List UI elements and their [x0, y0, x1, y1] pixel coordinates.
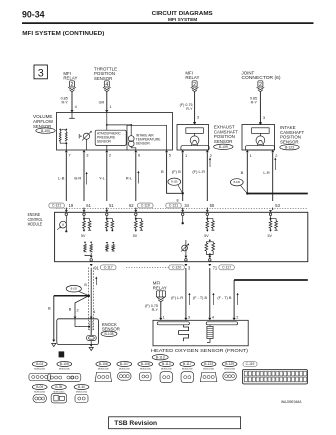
HO2S heater element [179, 325, 189, 341]
knock sensor shielded wire [90, 268, 92, 335]
direction arrow HO2S pin4 [212, 294, 214, 305]
svg-text:B-107: B-107 [120, 362, 129, 366]
engine control module box [55, 212, 308, 261]
svg-text:MU8012345: MU8012345 [203, 369, 215, 371]
connector B-129 [222, 361, 237, 366]
svg-text:B-R: B-R [74, 176, 81, 181]
svg-text:61: 61 [86, 203, 91, 208]
svg-text:3: 3 [263, 115, 265, 120]
connector B-35 [52, 384, 67, 389]
svg-text:50: 50 [210, 203, 215, 208]
svg-text:B-105: B-105 [171, 181, 178, 184]
connector B-113 [159, 361, 174, 366]
svg-text:MU8012345: MU8012345 [34, 392, 46, 394]
connector symbol MFI relay 2 [192, 81, 197, 87]
direction arrow knock wire [95, 278, 97, 285]
svg-text:5V: 5V [81, 234, 86, 238]
svg-text:C-121: C-121 [169, 204, 178, 208]
svg-text:MU8012345: MU8012345 [59, 369, 71, 371]
svg-text:B-123: B-123 [285, 145, 294, 149]
karman vortex sensor symbol [83, 133, 89, 139]
svg-text:(F) L-R: (F) L-R [171, 296, 183, 300]
intake air temperature sensor sub-box [127, 125, 167, 150]
ECM bottom dashed line [126, 266, 176, 268]
knock sensor box [57, 319, 99, 345]
svg-text:3: 3 [38, 67, 44, 79]
svg-text:MU8012345: MU8012345 [119, 369, 131, 371]
svg-text:R-Y: R-Y [152, 308, 159, 312]
knock sensor case ground [90, 344, 93, 346]
ECM pin 34 termination [181, 210, 184, 212]
svg-text:1: 1 [163, 314, 165, 319]
svg-text:B-35: B-35 [55, 385, 62, 389]
svg-text:2: 2 [210, 153, 212, 158]
label masks [45, 201, 191, 208]
shield drain junction [87, 295, 90, 298]
svg-text:71: 71 [213, 265, 218, 270]
svg-text:SENSOR: SENSOR [94, 76, 112, 81]
knock sensor pin 2 wire [75, 296, 89, 317]
direction arrow HO2S pin2 [237, 294, 239, 305]
svg-text:MU8012345: MU8012345 [76, 392, 88, 394]
svg-text:TSB Revision: TSB Revision [114, 420, 157, 427]
shield drain wire to ground [54, 295, 89, 297]
svg-text:2: 2 [77, 308, 79, 313]
svg-text:RELAY: RELAY [63, 76, 77, 81]
svg-text:V: V [62, 223, 65, 227]
svg-text:C-119: C-119 [141, 204, 150, 208]
wire right edge to HO2S pin 2 (thick) [234, 279, 308, 281]
connector ref oval B-108 [101, 331, 117, 336]
svg-text:SENSOR: SENSOR [102, 326, 120, 331]
knock pin 1 arrow + label [90, 317, 93, 319]
svg-text:CONNECTOR (6): CONNECTOR (6) [242, 75, 282, 80]
ECM connector label row dashed line [56, 207, 308, 209]
connector symbol MFI relay pin 2 [70, 81, 75, 87]
svg-text:R-Y: R-Y [61, 101, 68, 105]
svg-text:L-R: L-R [263, 170, 270, 175]
wire TPS into pressure sensor [106, 113, 108, 131]
direction arrow wire 62 [137, 172, 139, 184]
svg-text:MU8012345: MU8012345 [161, 369, 173, 371]
atmospheric pressure sensor box [95, 130, 126, 145]
connector B-106 [96, 361, 111, 366]
wire VAF pin 3 to ECM 61 [83, 153, 85, 211]
svg-text:2: 2 [71, 82, 74, 88]
svg-text:R-Y: R-Y [251, 101, 258, 105]
internal power bar [71, 113, 73, 119]
intake camshaft position sensor box [242, 125, 275, 151]
svg-text:3: 3 [188, 265, 191, 270]
svg-text:4: 4 [105, 82, 108, 88]
ground number 4 black box [59, 351, 65, 357]
svg-text:SENSOR: SENSOR [136, 141, 151, 145]
direction arrow HO2S pin3 [188, 294, 190, 305]
exhaust camshaft position sensor box [177, 125, 209, 151]
svg-text:C-119: C-119 [246, 362, 255, 366]
svg-text:(F) L-R: (F) L-R [192, 169, 205, 174]
connector B-105 [57, 361, 72, 366]
ECM internal resistor pair mid [106, 242, 108, 244]
ECM input resistors pin 51 [105, 210, 108, 212]
svg-text:GR: GR [99, 101, 105, 105]
ECM pin 71 differential pair [206, 240, 209, 243]
connector B-03 [32, 361, 47, 366]
header rule [22, 22, 314, 24]
svg-text:(F) B: (F) B [172, 169, 181, 174]
svg-text:B-106: B-106 [99, 362, 108, 366]
ECM exit label C-120 3 [169, 265, 185, 270]
HO2S sensing element [209, 325, 211, 327]
svg-text:B-113: B-113 [162, 362, 171, 366]
svg-text:CIRCUIT DIAGRAMS: CIRCUIT DIAGRAMS [152, 11, 213, 17]
svg-text:C-120: C-120 [172, 266, 181, 270]
svg-text:B-117: B-117 [183, 362, 192, 366]
wire intake pin 2 to ECM 53 [272, 153, 274, 211]
ECM entry pin 19 voltage sensor [65, 210, 68, 212]
ECM input resistors pin 62 [134, 210, 137, 212]
svg-text:90-34: 90-34 [22, 9, 45, 20]
svg-text:3: 3 [197, 115, 199, 120]
svg-text:MU8012345: MU8012345 [182, 369, 194, 371]
svg-text:5V: 5V [204, 234, 209, 238]
svg-text:B: B [241, 170, 244, 175]
svg-text:6: 6 [138, 153, 140, 158]
svg-text:B-09: B-09 [36, 385, 43, 389]
svg-text:B-108: B-108 [104, 332, 113, 336]
svg-text:2: 2 [193, 82, 196, 88]
connector B-09 [32, 384, 47, 389]
flow meter coils [59, 132, 61, 141]
ECM exit 71 [208, 256, 211, 258]
ECM output driver symbol [182, 245, 188, 251]
connector ref oval B-113 [152, 355, 168, 360]
svg-text:B-105: B-105 [71, 288, 78, 291]
direction arrow wire 53 [274, 159, 276, 170]
svg-text:SENSOR: SENSOR [280, 139, 299, 144]
svg-text:MFI SYSTEM: MFI SYSTEM [168, 17, 197, 23]
svg-text:5: 5 [169, 153, 171, 158]
svg-text:B-113: B-113 [156, 355, 165, 359]
direction arrow wire 50 [209, 159, 211, 167]
svg-text:2: 2 [109, 153, 111, 158]
connector ref C-121 (second) [166, 203, 182, 208]
ECM exit 3 [184, 256, 187, 258]
svg-text:MU8012345: MU8012345 [224, 369, 236, 371]
wire VAF pin 2 to ECM 51 [106, 153, 108, 211]
wire MFI relay to HO2S pin 1 [160, 302, 162, 319]
wire throttle position sensor to volume airflow sensor pin 1 [106, 92, 108, 111]
svg-text:51: 51 [109, 203, 114, 208]
svg-text:(F - T) B: (F - T) B [193, 296, 208, 300]
svg-text:B-105: B-105 [234, 181, 241, 184]
svg-text:8: 8 [177, 199, 179, 203]
svg-text:2: 2 [259, 82, 262, 88]
wire MFI relay to exhaust camshaft position sensor [194, 92, 196, 123]
svg-text:Y-L: Y-L [99, 176, 106, 181]
svg-text:SENSOR: SENSOR [214, 139, 233, 144]
svg-text:B-40: B-40 [78, 385, 85, 389]
svg-text:62: 62 [129, 203, 134, 208]
svg-text:19: 19 [69, 203, 74, 208]
svg-text:1: 1 [109, 104, 111, 109]
ECM input resistors pin 50 [206, 210, 209, 212]
svg-text:B-100: B-100 [41, 129, 50, 133]
HO2S tray 2 [206, 322, 237, 325]
svg-text:MU8012345: MU8012345 [98, 369, 110, 371]
connector C-119 multi-pin [243, 362, 257, 367]
svg-text:2: 2 [275, 153, 277, 158]
connector ref oval B-100 [36, 128, 55, 133]
svg-text:34: 34 [184, 203, 189, 208]
ECM input resistors pin 53 [269, 210, 272, 212]
wire joint connector to intake camshaft position sensor [259, 92, 261, 123]
connector B-123 [201, 361, 216, 366]
svg-text:B: B [161, 169, 164, 174]
svg-text:53: 53 [275, 203, 280, 208]
direction arrow wire 61 [86, 173, 88, 185]
connector B-40 [74, 384, 89, 389]
wire ECM 71 to HO2S pin 4 [209, 268, 211, 318]
svg-text:5V: 5V [133, 234, 138, 238]
svg-text:MU8012345: MU8012345 [140, 369, 152, 371]
svg-text:1: 1 [250, 153, 252, 158]
ECM knock interface resistors [84, 242, 86, 244]
wire intake pin 1 to right edge (thick) [246, 153, 248, 194]
wire exhaust pin 1 to ECM 34 [182, 153, 184, 211]
diagram index box 3 [34, 65, 47, 79]
wire VAF pin 5 joins exhaust pin 1 wire [167, 153, 183, 194]
svg-text:RELAY: RELAY [185, 75, 199, 80]
connector ref oval B-109 [214, 144, 233, 149]
svg-text:B: B [48, 306, 51, 311]
svg-text:4: 4 [75, 104, 78, 109]
ECM input resistors pin 61 [83, 210, 86, 212]
connector ref C-119 [138, 203, 154, 208]
svg-text:B: B [84, 283, 87, 287]
svg-text:7: 7 [69, 153, 71, 158]
svg-text:R-Y: R-Y [186, 107, 193, 111]
svg-text:B-105: B-105 [60, 362, 69, 366]
branch to intake air temperature sensor [107, 124, 131, 126]
junction connector oval callout right [230, 179, 243, 186]
svg-text:C-117: C-117 [104, 266, 113, 270]
svg-text:3: 3 [86, 153, 88, 158]
svg-text:C-121: C-121 [52, 204, 61, 208]
svg-text:B: B [69, 307, 72, 312]
intake air temperature sensor thermistor [128, 136, 134, 142]
svg-text:4: 4 [212, 314, 215, 319]
VAF bottom pin arrows and numbers [65, 150, 68, 152]
svg-text:HEATED OXYGEN SENSOR (FRONT): HEATED OXYGEN SENSOR (FRONT) [151, 348, 249, 353]
svg-text:3: 3 [188, 314, 190, 319]
heated oxygen sensor box [153, 320, 248, 346]
HO2S tray 1 [157, 322, 189, 325]
wire MFI relay to volume airflow sensor pin 4 [71, 92, 73, 111]
svg-text:SENSOR: SENSOR [97, 140, 112, 144]
volume airflow sensor box [57, 113, 173, 151]
svg-text:1: 1 [185, 153, 187, 158]
wire VAF pin 7 to ECM 19 [65, 153, 67, 211]
svg-text:1: 1 [93, 309, 95, 314]
ground symbol 4 (left) [52, 340, 55, 342]
svg-text:B-108: B-108 [141, 362, 150, 366]
svg-text:MFI SYSTEM (CONTINUED): MFI SYSTEM (CONTINUED) [22, 31, 104, 37]
ECM exit 91 [90, 256, 93, 258]
svg-text:MODULE: MODULE [28, 222, 42, 227]
connector B-107 [117, 361, 132, 366]
svg-text:MU8012345: MU8012345 [34, 369, 46, 371]
svg-text:R-L: R-L [126, 176, 133, 181]
svg-text:B-03: B-03 [36, 362, 43, 366]
svg-text:2: 2 [236, 314, 238, 319]
connector symbol joint connector [258, 81, 263, 87]
svg-text:B-123: B-123 [204, 362, 213, 366]
svg-text:B-129: B-129 [225, 362, 234, 366]
svg-text:B-109: B-109 [219, 145, 228, 149]
connector B-117 [180, 361, 195, 366]
svg-text:RELAY: RELAY [153, 285, 167, 290]
wire ECM 3 to HO2S pin 3 [185, 268, 187, 318]
svg-text:C-117: C-117 [222, 266, 231, 270]
connector symbol MFI relay lower [156, 291, 165, 297]
connector ref C-121 [49, 203, 65, 208]
wire VAF pin 6 to ECM 62 [135, 153, 137, 211]
wire exhaust pin 2 to ECM 50 [206, 153, 208, 211]
svg-text:L-B: L-B [58, 176, 65, 181]
junction connector oval callout knock [66, 285, 81, 292]
svg-text:WAJ09E048A: WAJ09E048A [281, 400, 302, 404]
TSB revision box [109, 417, 241, 429]
svg-text:5V: 5V [268, 234, 273, 238]
connector ref oval B-123 [280, 145, 299, 150]
junction connector oval callout left [168, 178, 181, 185]
connector B-108 [138, 361, 153, 366]
svg-text:91: 91 [94, 265, 99, 270]
connector symbol throttle position sensor pin 4 [104, 81, 109, 87]
knock sensor internals [74, 319, 76, 327]
svg-text:(F - T) B: (F - T) B [217, 296, 232, 300]
